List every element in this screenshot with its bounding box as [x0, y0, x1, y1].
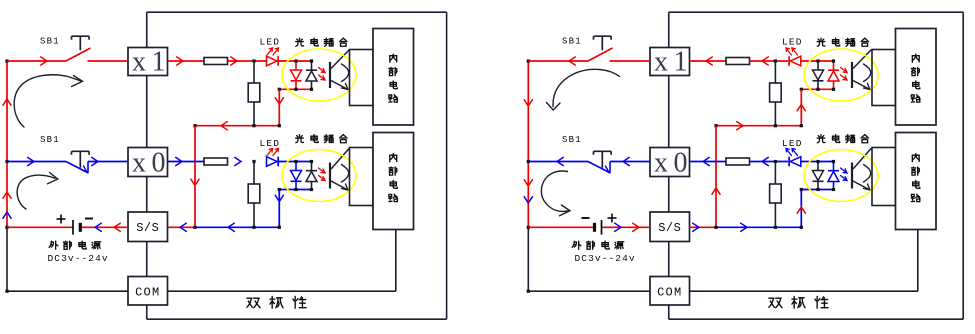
svg-text:SB1: SB1: [40, 37, 60, 47]
svg-text:LED: LED: [782, 37, 803, 48]
svg-text:LED: LED: [260, 138, 281, 149]
svg-text:S/S: S/S: [658, 221, 681, 235]
svg-text:x 1: x 1: [132, 47, 166, 78]
svg-text:COM: COM: [657, 286, 682, 300]
svg-text:x 0: x 0: [132, 148, 166, 179]
svg-text:SB1: SB1: [40, 135, 60, 145]
svg-text:LED: LED: [782, 138, 803, 149]
svg-text:DC3v--24v: DC3v--24v: [48, 253, 109, 264]
svg-text:COM: COM: [135, 286, 160, 300]
svg-text:x 0: x 0: [654, 148, 688, 179]
svg-text:SB1: SB1: [562, 135, 582, 145]
svg-text:S/S: S/S: [136, 221, 159, 235]
svg-text:DC3v--24v: DC3v--24v: [575, 253, 636, 264]
svg-text:x 1: x 1: [654, 47, 688, 78]
svg-text:SB1: SB1: [562, 37, 582, 47]
svg-text:LED: LED: [260, 37, 281, 48]
